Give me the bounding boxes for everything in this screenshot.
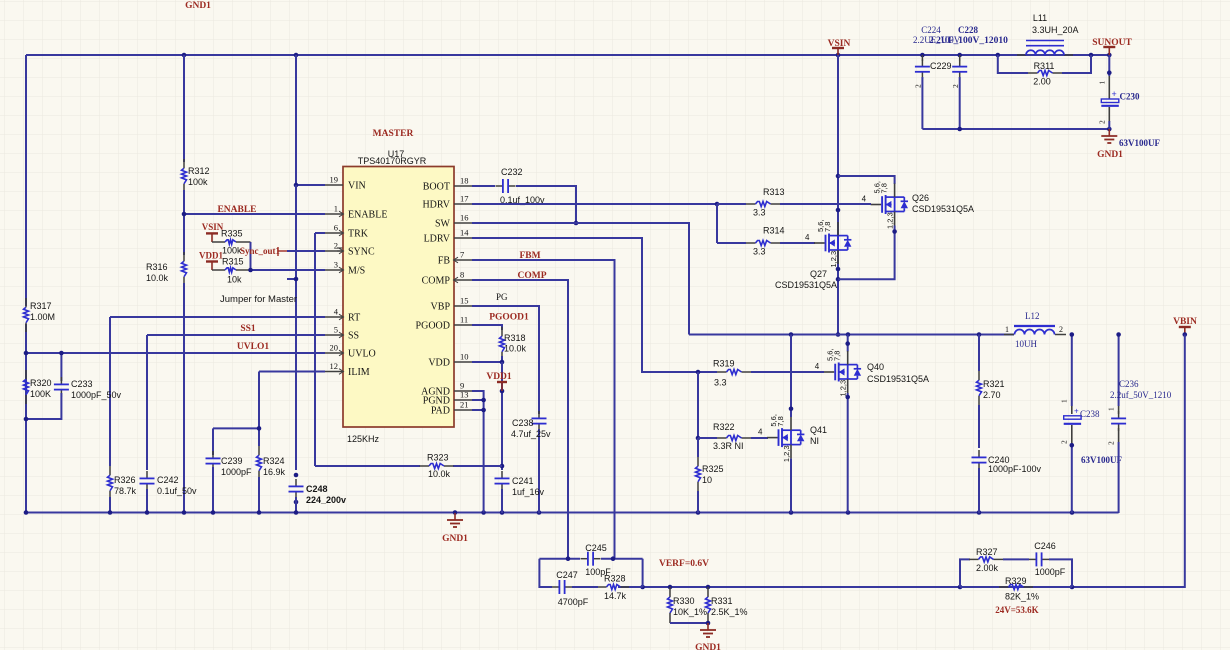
svg-text:R335: R335 (221, 229, 243, 239)
pin 9 AGND (454, 390, 472, 392)
svg-text:16.9k: 16.9k (263, 467, 286, 477)
svg-text:R316: R316 (146, 262, 168, 272)
svg-text:2.70: 2.70 (983, 390, 1001, 400)
svg-text:1: 1 (1107, 407, 1116, 411)
svg-text:C228: C228 (958, 25, 978, 35)
svg-text:14: 14 (460, 228, 469, 238)
pin 10 VDD (454, 361, 472, 363)
svg-text:1,2,3: 1,2,3 (839, 380, 848, 397)
resistor R324 (258, 372, 260, 447)
capacitor C248 (295, 479, 297, 486)
svg-text:GND1: GND1 (1097, 150, 1123, 160)
svg-text:21: 21 (460, 400, 469, 410)
svg-text:R331: R331 (711, 596, 733, 606)
wire VIN riser (295, 55, 297, 185)
ground GND1 (under C230) (1108, 129, 1110, 136)
svg-text:CSD19531Q5A: CSD19531Q5A (912, 204, 974, 214)
svg-text:4.7uf_25v: 4.7uf_25v (511, 429, 551, 439)
svg-text:UVLO1: UVLO1 (237, 342, 269, 352)
svg-text:1000pF-100v: 1000pF-100v (988, 464, 1042, 474)
power port SUNOUT (1103, 46, 1115, 48)
svg-text:2: 2 (334, 241, 338, 251)
svg-text:RT: RT (348, 313, 360, 324)
svg-text:5: 5 (334, 325, 338, 335)
wire SW node horizontal (689, 334, 1014, 336)
svg-text:10k: 10k (227, 275, 242, 285)
svg-text:C229: C229 (930, 61, 952, 71)
svg-text:ENABLE: ENABLE (217, 205, 256, 215)
svg-text:SS1: SS1 (240, 324, 256, 334)
power port VSIN (small, R335) (206, 232, 218, 234)
wire VDD (472, 361, 502, 363)
wire - left rail vertical (25, 55, 27, 306)
wire VERF feedback (643, 586, 1072, 588)
resistor R315 (212, 269, 225, 271)
op-amp U17 IC body TPS40170RGYR (343, 167, 454, 428)
svg-text:R328: R328 (604, 574, 626, 584)
svg-text:R320: R320 (30, 378, 52, 388)
svg-text:3.3R NI: 3.3R NI (713, 441, 744, 451)
svg-text:VSIN: VSIN (828, 39, 851, 49)
svg-text:R322: R322 (713, 422, 735, 432)
resistor R316 (183, 214, 185, 255)
svg-text:82K_1%: 82K_1% (1005, 592, 1039, 602)
svg-text:VBP: VBP (431, 302, 451, 313)
resistor R335 (212, 241, 225, 243)
wire - bottom GND rail (26, 512, 1119, 514)
svg-text:10: 10 (702, 475, 712, 485)
power port VDD1 (small, R315) (206, 260, 218, 262)
svg-text:1000pF_50v: 1000pF_50v (71, 390, 122, 400)
svg-text:100K: 100K (30, 389, 51, 399)
resistor R320 (25, 370, 27, 379)
ground GND1 (under IC) (454, 513, 456, 520)
svg-text:2: 2 (1107, 441, 1116, 445)
svg-text:Q41: Q41 (810, 425, 827, 435)
svg-text:C241: C241 (512, 476, 534, 486)
svg-text:2.00: 2.00 (1033, 77, 1051, 87)
svg-text:C248: C248 (306, 484, 328, 494)
svg-text:PG: PG (496, 292, 508, 302)
capacitor C230 (polarized) (1108, 55, 1110, 76)
wire Q26 drain branch (838, 176, 895, 184)
svg-text:7,8: 7,8 (776, 416, 785, 426)
svg-text:TRK: TRK (348, 229, 369, 240)
svg-text:R325: R325 (702, 464, 724, 474)
wire R330-R331 bottom (670, 622, 708, 624)
wire UVLO (26, 352, 325, 354)
svg-text:3.3: 3.3 (753, 247, 766, 257)
svg-text:+: + (1112, 89, 1117, 99)
svg-text:100k: 100k (222, 246, 242, 256)
svg-text:18: 18 (460, 176, 469, 186)
pin 8 COMP (454, 279, 472, 281)
wire VBIN feedback riser (1072, 335, 1185, 588)
svg-text:R327: R327 (976, 547, 998, 557)
capacitor C236 (1118, 335, 1120, 407)
transistor Q26 CSD19531Q5A (871, 204, 882, 206)
capacitor C242 (146, 335, 148, 470)
svg-text:R326: R326 (114, 475, 136, 485)
svg-text:4: 4 (805, 233, 810, 242)
svg-text:TPS40170RGYR: TPS40170RGYR (358, 156, 427, 166)
svg-text:SW: SW (435, 219, 451, 230)
svg-text:C238: C238 (1080, 409, 1100, 419)
wire COMP (472, 280, 568, 559)
svg-text:4700pF: 4700pF (558, 597, 589, 607)
svg-text:13: 13 (460, 390, 469, 400)
svg-text:C230: C230 (1120, 92, 1140, 102)
svg-text:GND1: GND1 (695, 643, 721, 650)
wire R319-R322 link (697, 372, 699, 438)
svg-text:R314: R314 (763, 226, 785, 236)
svg-text:R323: R323 (427, 453, 449, 463)
wire Q26 source (838, 226, 895, 280)
svg-text:GND1: GND1 (185, 1, 211, 11)
capacitor C233 (60, 353, 62, 381)
resistor R317 (25, 298, 27, 307)
svg-text:C236: C236 (1119, 379, 1139, 389)
wire HDRV (472, 203, 717, 205)
capacitor C245 (581, 558, 588, 560)
svg-text:1: 1 (1098, 81, 1107, 85)
inductor L11 (1017, 54, 1026, 56)
svg-text:R317: R317 (30, 301, 52, 311)
svg-text:NI: NI (810, 436, 819, 446)
svg-text:12: 12 (330, 361, 339, 371)
svg-text:3.3: 3.3 (753, 208, 766, 218)
wire Q40 drain (847, 335, 849, 352)
svg-text:Q26: Q26 (912, 193, 929, 203)
wire LDRV (472, 238, 698, 372)
wire TRK riser (315, 232, 325, 234)
svg-text:11: 11 (460, 315, 468, 325)
svg-text:VERF=0.6V: VERF=0.6V (659, 559, 709, 569)
svg-text:63V100UF: 63V100UF (1081, 455, 1122, 465)
svg-text:6: 6 (334, 223, 338, 233)
svg-text:2: 2 (1060, 440, 1069, 444)
wire PGOOD (472, 325, 502, 330)
svg-text:3.3UH_20A: 3.3UH_20A (1032, 25, 1079, 35)
pin 12 ILIM (325, 371, 343, 373)
svg-text:10K_1%: 10K_1% (673, 607, 707, 617)
svg-text:C232: C232 (501, 167, 523, 177)
capacitor C240 (978, 450, 980, 457)
pin 11 PGOOD (454, 324, 472, 326)
svg-text:R330: R330 (673, 596, 695, 606)
pin 7 FB (454, 259, 472, 261)
svg-text:100k: 100k (188, 177, 208, 187)
resistor R325 (697, 438, 699, 457)
svg-text:C242: C242 (157, 475, 179, 485)
svg-text:224_200v: 224_200v (306, 495, 346, 505)
wire M/S (251, 269, 326, 271)
resistor R321 (snubber) (978, 335, 980, 372)
pin 5 SS (325, 334, 343, 336)
resistor R318 (501, 327, 503, 336)
svg-text:63V100UF: 63V100UF (1119, 138, 1160, 148)
capacitor C239 (213, 427, 259, 429)
power port VDD1 (497, 381, 507, 383)
svg-text:FB: FB (438, 256, 451, 267)
svg-text:C246: C246 (1034, 541, 1056, 551)
pin 20 UVLO (325, 352, 343, 354)
svg-text:SS: SS (348, 331, 359, 342)
svg-text:1uf_16v: 1uf_16v (512, 487, 545, 497)
svg-text:R313: R313 (763, 187, 785, 197)
svg-text:7,8: 7,8 (823, 222, 832, 232)
svg-text:PGOOD1: PGOOD1 (489, 313, 529, 323)
svg-text:C233: C233 (71, 379, 93, 389)
svg-text:4: 4 (758, 428, 763, 437)
resistor R330 (669, 587, 671, 597)
wire R323 (TRK to VDD) (315, 465, 420, 467)
transistor Q41 NI (767, 437, 778, 439)
svg-text:ILIM: ILIM (348, 367, 370, 378)
resistor R326 (109, 317, 111, 466)
capacitor C228 (959, 55, 961, 61)
pin 15 VBP (454, 305, 472, 307)
compensation network top branch (539, 558, 580, 560)
pin 3 M/S (325, 269, 343, 271)
svg-text:R311: R311 (1034, 61, 1055, 71)
resistor R313 (717, 203, 746, 205)
wire SW (472, 223, 689, 335)
svg-text:10.0k: 10.0k (504, 344, 527, 354)
capacitor C232 (BOOT) (472, 185, 495, 187)
pin 6 TRK (325, 232, 343, 234)
pin 4 RT (325, 316, 343, 318)
wire stub near M/S (287, 278, 296, 280)
svg-text:1.00M: 1.00M (30, 312, 55, 322)
svg-text:2: 2 (1059, 325, 1063, 334)
svg-text:20: 20 (330, 343, 339, 353)
svg-text:1: 1 (1060, 399, 1069, 403)
wire FB (472, 260, 615, 559)
svg-text:2.5K_1%: 2.5K_1% (711, 607, 748, 617)
svg-text:7,8: 7,8 (833, 351, 842, 361)
svg-text:4: 4 (862, 195, 867, 204)
pin 18 BOOT (454, 185, 472, 187)
svg-text:Sync_out1: Sync_out1 (240, 246, 281, 256)
svg-text:R312: R312 (188, 166, 210, 176)
wire VBP / PG (472, 306, 539, 414)
svg-text:2.2uf_50V_1210: 2.2uf_50V_1210 (1110, 390, 1172, 400)
svg-text:3: 3 (334, 260, 338, 270)
wire Q41 drain (790, 335, 792, 418)
svg-text:ENABLE: ENABLE (348, 210, 387, 221)
svg-text:L12: L12 (1025, 311, 1040, 321)
svg-text:UVLO: UVLO (348, 349, 376, 360)
wire Q40 source (847, 393, 849, 513)
svg-text:C238: C238 (512, 418, 534, 428)
pin 16 SW (454, 222, 472, 224)
svg-text:1,2,3: 1,2,3 (829, 251, 838, 268)
svg-text:SYNC: SYNC (348, 247, 375, 258)
svg-text:VDD1: VDD1 (199, 251, 223, 261)
svg-text:VDD: VDD (428, 358, 450, 369)
resistor R331 (707, 587, 709, 597)
svg-text:2: 2 (914, 84, 923, 88)
svg-text:R321: R321 (983, 379, 1005, 389)
svg-text:R324: R324 (263, 456, 285, 466)
svg-text:VBIN: VBIN (1173, 317, 1197, 327)
svg-text:C239: C239 (221, 456, 243, 466)
capacitor C247 (552, 586, 559, 588)
svg-text:7,8: 7,8 (880, 183, 889, 193)
transistor Q27 CSD19531Q5A (814, 242, 825, 244)
compensation network lower branch (539, 559, 552, 587)
wire Q41 source (790, 459, 792, 513)
svg-text:15: 15 (460, 296, 469, 306)
svg-text:3.3: 3.3 (714, 378, 727, 388)
svg-text:24V=53.6K: 24V=53.6K (995, 605, 1038, 615)
svg-text:SUNOUT: SUNOUT (1092, 38, 1132, 48)
pin 1 ENABLE (325, 213, 343, 215)
svg-text:4: 4 (815, 362, 820, 371)
resistor R314 (717, 242, 746, 244)
svg-text:VIN: VIN (348, 181, 366, 192)
capacitor C241 (501, 471, 503, 478)
svg-text:PGOOD: PGOOD (416, 321, 450, 332)
svg-text:1,2,3: 1,2,3 (782, 445, 791, 462)
svg-text:R315: R315 (222, 257, 244, 267)
svg-text:Jumper for Master: Jumper for Master (220, 294, 297, 305)
svg-text:CSD19531Q5A: CSD19531Q5A (775, 280, 837, 290)
wire - cap bottom bus (922, 128, 1109, 130)
svg-text:COMP: COMP (422, 276, 451, 287)
svg-text:8: 8 (460, 270, 464, 280)
pin 19 VIN (325, 184, 343, 186)
resistor R311 (parallel with L11) (998, 55, 1028, 73)
svg-text:10.0k: 10.0k (146, 273, 169, 283)
svg-text:LDRV: LDRV (424, 234, 451, 245)
svg-text:10: 10 (460, 352, 469, 362)
pin 14 LDRV (454, 237, 472, 239)
wire VSIN riser to FETs (837, 55, 839, 335)
wire AGND/PGND/PAD (472, 391, 484, 513)
svg-text:FBM: FBM (519, 251, 540, 261)
resistor R329 (960, 586, 1000, 588)
power port VSIN (top) (832, 47, 844, 49)
svg-text:10.0k: 10.0k (428, 469, 451, 479)
svg-text:1: 1 (1005, 325, 1009, 334)
pin 2 SYNC (325, 250, 343, 252)
wire - top VSIN rail (26, 54, 1110, 56)
capacitor C238 output (polarized) (1071, 335, 1073, 407)
svg-text:Q27: Q27 (810, 269, 827, 279)
resistor R328 (607, 585, 621, 590)
power port VBIN (1179, 326, 1191, 328)
junction top rail (182, 53, 187, 58)
svg-text:2.00k: 2.00k (976, 563, 999, 573)
svg-text:125KHz: 125KHz (347, 434, 380, 444)
svg-text:BOOT: BOOT (423, 182, 450, 193)
capacitor C224 (921, 55, 923, 61)
ground GND1 (bottom) (707, 623, 709, 630)
svg-text:2: 2 (951, 84, 960, 88)
svg-text:R318: R318 (504, 333, 526, 343)
resistor R312 (183, 55, 185, 162)
svg-text:10UH: 10UH (1015, 339, 1037, 349)
svg-text:Q40: Q40 (867, 362, 884, 372)
inductor L12 (1004, 334, 1014, 336)
svg-text:R329: R329 (1005, 576, 1027, 586)
capacitor C238 (538, 411, 540, 418)
resistor R327 (969, 558, 979, 560)
svg-text:7: 7 (460, 250, 464, 260)
svg-text:L11: L11 (1033, 13, 1047, 23)
svg-text:1: 1 (334, 204, 338, 214)
svg-text:1,2,3: 1,2,3 (886, 212, 895, 229)
svg-text:19: 19 (330, 175, 339, 185)
svg-text:C245: C245 (585, 543, 607, 553)
svg-text:78.7k: 78.7k (114, 486, 137, 496)
wire RT (110, 316, 325, 318)
svg-text:14.7k: 14.7k (604, 591, 627, 601)
svg-text:C247: C247 (556, 570, 578, 580)
svg-text:0.1uf_50v: 0.1uf_50v (157, 486, 197, 496)
wire SS (147, 334, 325, 336)
svg-text:GND1: GND1 (442, 534, 468, 544)
svg-text:CSD19531Q5A: CSD19531Q5A (867, 374, 929, 384)
wire ILIM (259, 371, 325, 373)
svg-text:VDD1: VDD1 (486, 372, 512, 382)
svg-text:MASTER: MASTER (373, 129, 414, 139)
svg-text:+: + (1074, 407, 1079, 416)
wire ENABLE (184, 213, 325, 215)
wire R313-R314 link (716, 204, 718, 243)
svg-text:R319: R319 (713, 359, 735, 369)
svg-text:PAD: PAD (431, 406, 450, 417)
pin 17 HDRV (454, 203, 472, 205)
wire SYNC (287, 250, 325, 252)
resistor R319 (698, 371, 717, 373)
svg-text:16: 16 (460, 213, 469, 223)
pin 13 PGND (454, 399, 472, 401)
svg-text:2.2UF_100V_12010: 2.2UF_100V_12010 (929, 36, 1008, 46)
svg-text:2: 2 (1098, 120, 1107, 124)
resistor R322 (698, 437, 717, 439)
svg-text:17: 17 (460, 194, 469, 204)
svg-text:1000pF: 1000pF (1035, 567, 1066, 577)
capacitor C246 (1003, 558, 1029, 560)
svg-text:HDRV: HDRV (422, 200, 450, 211)
svg-text:1000pF: 1000pF (221, 467, 252, 477)
transistor Q40 CSD19531Q5A (824, 371, 835, 373)
svg-text:COMP: COMP (517, 271, 546, 281)
pin 21 PAD (454, 409, 472, 411)
svg-text:M/S: M/S (348, 266, 365, 277)
branch R327/C246 (960, 559, 970, 587)
svg-text:C224: C224 (921, 25, 941, 35)
